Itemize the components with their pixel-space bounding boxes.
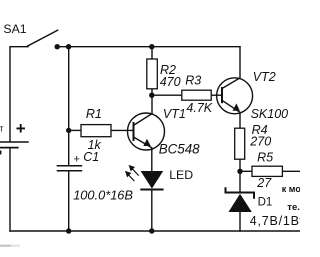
transistor VT1 base bar xyxy=(133,122,135,141)
zener D1 cathode bar with ticks xyxy=(226,187,255,199)
junction: C1/R1 branch xyxy=(66,128,71,133)
svg-text:VT1: VT1 xyxy=(163,107,186,121)
svg-text:100.0*16В: 100.0*16В xyxy=(73,188,133,203)
svg-text:470: 470 xyxy=(160,75,181,89)
svg-text:SK100: SK100 xyxy=(251,107,289,121)
battery GB1 long plate (+) xyxy=(0,141,29,143)
svg-text:BC548: BC548 xyxy=(159,141,200,156)
svg-text:C1: C1 xyxy=(83,150,99,164)
resistor R5 body xyxy=(252,166,282,176)
svg-text:4,7В/1Вт: 4,7В/1Вт xyxy=(250,214,300,228)
LED cathode bar xyxy=(140,189,163,191)
wire: VT2 collector riser xyxy=(222,47,240,89)
transistor VT1 circle xyxy=(128,113,165,150)
LED VD1 triangle xyxy=(141,171,164,189)
transistor VT1 emitter arrow xyxy=(143,139,150,146)
svg-text:LED: LED xyxy=(169,168,193,182)
wire: C1/R1 branch column from top rail xyxy=(68,47,70,166)
svg-text:SA1: SA1 xyxy=(3,22,26,36)
resistor R3 body xyxy=(182,90,211,100)
wire: battery negative down to ground rail xyxy=(9,148,11,231)
wire: R3 left lead xyxy=(152,94,182,96)
wire: R1 left lead xyxy=(69,129,81,131)
svg-text:VT2: VT2 xyxy=(253,70,276,84)
svg-text:1k: 1k xyxy=(88,138,102,152)
wire: LED cathode to ground rail xyxy=(151,190,153,231)
svg-text:R5: R5 xyxy=(257,150,273,164)
transistor VT2 base bar xyxy=(221,87,223,103)
wire: top rail from switch to VT2 collector column xyxy=(57,46,240,48)
scan artifact line bottom left xyxy=(0,245,11,247)
wire: R5 right lead to edge xyxy=(282,170,300,172)
wire: R4 bottom to zener D1 xyxy=(239,159,241,191)
capacitor C1 bottom plate xyxy=(57,170,82,172)
svg-text:+: + xyxy=(16,119,26,138)
wire: R5 left lead from node xyxy=(240,170,252,172)
wire: battery positive up to switch SA1 xyxy=(10,47,28,142)
wire: D1 anode to ground rail xyxy=(239,212,241,231)
svg-text:+: + xyxy=(74,153,80,165)
cut-off label fragment left edge lower xyxy=(0,151,1,155)
junction: switch fixed contact xyxy=(55,44,60,49)
wire: VT1 emitter to LED anode xyxy=(134,137,152,171)
junction: C1 to ground rail xyxy=(66,228,71,233)
junction: top rail to C1 branch xyxy=(66,44,71,49)
svg-text:4.7K: 4.7K xyxy=(186,101,212,115)
wire: R1 right lead to VT1 base xyxy=(111,129,134,131)
switch SA1 blade xyxy=(28,30,58,46)
svg-text:ат: ат xyxy=(0,124,4,134)
svg-text:D1: D1 xyxy=(258,196,273,208)
wire: R2 top lead xyxy=(151,47,153,59)
transistor VT2 emitter arrow xyxy=(233,103,240,110)
wire: bottom ground rail xyxy=(10,230,300,232)
zener D1 triangle xyxy=(229,194,252,212)
junction: R2/R3/VT1 collector node xyxy=(149,93,154,98)
svg-text:27: 27 xyxy=(256,176,272,190)
LED emission arrow 1 xyxy=(130,166,139,176)
wire: R3 right lead to VT2 base xyxy=(211,94,222,96)
svg-text:R3: R3 xyxy=(185,74,201,88)
transistor VT2 circle xyxy=(217,78,253,114)
resistor R4 body xyxy=(235,128,245,159)
junction: R4/R5/D1 node xyxy=(237,169,242,174)
svg-text:R1: R1 xyxy=(86,107,102,121)
svg-text:к мос: к мос xyxy=(282,184,300,194)
wire: R2 bottom lead / VT1 collector column xyxy=(134,89,153,126)
junction: top rail to R2 xyxy=(149,44,154,49)
wire: VT2 emitter down to R4 xyxy=(222,100,240,128)
capacitor C1 top plate xyxy=(57,165,82,167)
LED emission arrow 2 xyxy=(126,172,134,181)
svg-text:те.: те. xyxy=(287,202,300,213)
junction: LED cathode to ground rail xyxy=(149,228,154,233)
battery GB1 short plate (-) xyxy=(0,147,19,149)
svg-text:270: 270 xyxy=(249,134,271,148)
resistor R1 body xyxy=(81,125,111,137)
resistor R2 body xyxy=(147,59,158,89)
wire: C1 bottom to ground rail xyxy=(68,171,70,231)
